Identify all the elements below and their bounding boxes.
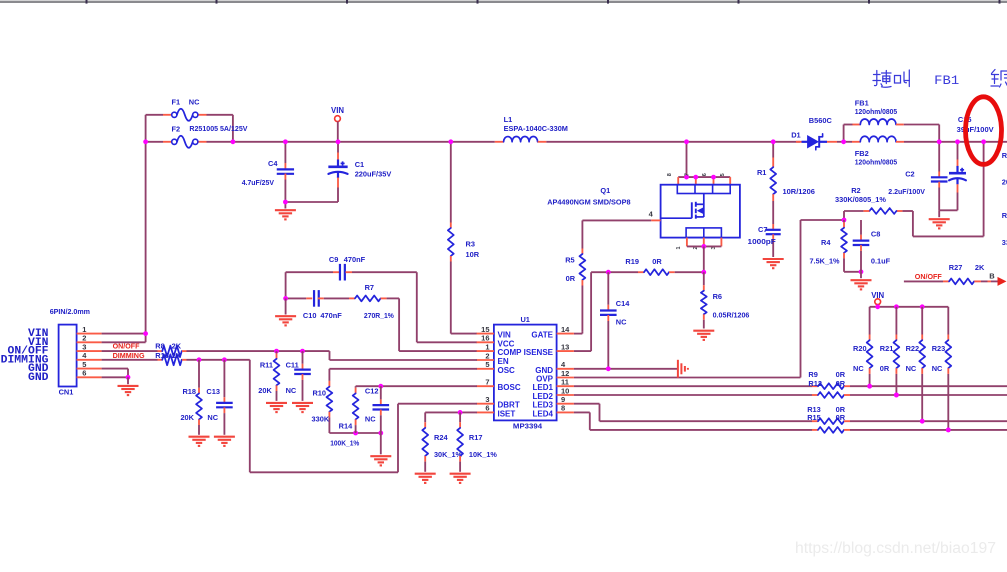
- svg-text:33: 33: [1002, 238, 1007, 247]
- svg-text:MP3394: MP3394: [513, 421, 543, 430]
- svg-text:VIN: VIN: [498, 331, 512, 340]
- svg-text:FB1: FB1: [934, 73, 959, 88]
- svg-text:R3: R3: [1002, 211, 1007, 220]
- svg-text:R2: R2: [1002, 151, 1007, 160]
- svg-text:GND: GND: [28, 372, 49, 384]
- svg-text:5: 5: [82, 360, 86, 369]
- svg-text:R17: R17: [469, 433, 483, 442]
- svg-text:6: 6: [485, 404, 489, 413]
- svg-text:2K: 2K: [172, 351, 182, 360]
- svg-text:ISENSE: ISENSE: [524, 348, 554, 357]
- svg-text:R15: R15: [807, 413, 821, 422]
- svg-text:6PIN/2.0mm: 6PIN/2.0mm: [50, 307, 91, 316]
- svg-text:2: 2: [485, 351, 489, 360]
- svg-text:R16: R16: [155, 351, 169, 360]
- svg-text:7.5K_1%: 7.5K_1%: [810, 256, 840, 265]
- svg-text:R9: R9: [808, 370, 817, 379]
- svg-text:R8: R8: [155, 342, 164, 351]
- svg-text:AP4490NGM SMD/SOP8: AP4490NGM SMD/SOP8: [547, 198, 630, 207]
- svg-text:270R_1%: 270R_1%: [364, 311, 394, 320]
- svg-text:C14: C14: [616, 299, 630, 308]
- svg-text:R14: R14: [339, 421, 353, 430]
- svg-text:0.05R/1206: 0.05R/1206: [713, 310, 750, 319]
- svg-text:10K_1%: 10K_1%: [469, 450, 497, 459]
- svg-text:120ohm/0805: 120ohm/0805: [855, 107, 897, 116]
- svg-text:5: 5: [485, 360, 489, 369]
- svg-text:R6: R6: [713, 292, 722, 301]
- svg-text:C12: C12: [365, 387, 379, 396]
- svg-text:COMP: COMP: [498, 348, 523, 357]
- svg-text:NC: NC: [853, 364, 864, 373]
- svg-text:1: 1: [485, 342, 489, 351]
- svg-text:6: 6: [82, 369, 86, 378]
- svg-text:OVP: OVP: [536, 375, 554, 384]
- svg-text:3: 3: [485, 395, 489, 404]
- svg-text:R5: R5: [565, 255, 574, 264]
- svg-text:100K_1%: 100K_1%: [330, 439, 359, 448]
- svg-text:VCC: VCC: [498, 339, 515, 348]
- svg-text:LED1: LED1: [533, 383, 554, 392]
- svg-text:12: 12: [561, 369, 569, 378]
- svg-text:R22: R22: [906, 344, 920, 353]
- svg-text:NC: NC: [616, 317, 627, 326]
- svg-text:GND: GND: [535, 366, 553, 375]
- svg-text:16: 16: [481, 334, 489, 343]
- svg-text:Q1: Q1: [600, 186, 610, 195]
- svg-text:7: 7: [684, 173, 690, 176]
- svg-text:2K: 2K: [975, 263, 985, 272]
- svg-text:DBRT: DBRT: [498, 401, 520, 410]
- svg-text:NC: NC: [932, 364, 943, 373]
- svg-text:EN: EN: [498, 357, 509, 366]
- svg-text:10: 10: [561, 386, 569, 395]
- svg-text:LED2: LED2: [533, 392, 554, 401]
- svg-text:120ohm/0805: 120ohm/0805: [855, 158, 897, 167]
- svg-text:4.7uF/25V: 4.7uF/25V: [242, 178, 274, 187]
- svg-text:R24: R24: [434, 433, 448, 442]
- svg-text:C10: C10: [303, 311, 317, 320]
- svg-text:8: 8: [667, 173, 673, 176]
- svg-text:D1: D1: [791, 131, 800, 140]
- svg-text:0.1uF: 0.1uF: [871, 256, 891, 265]
- svg-text:20K: 20K: [258, 386, 272, 395]
- svg-text:ISET: ISET: [498, 409, 516, 418]
- svg-text:7: 7: [485, 378, 489, 387]
- svg-text:220uF/35V: 220uF/35V: [355, 169, 392, 178]
- svg-text:C8: C8: [871, 229, 880, 238]
- svg-text:C2: C2: [905, 170, 914, 179]
- svg-text:R4: R4: [821, 238, 831, 247]
- svg-text:ON/OFF: ON/OFF: [915, 272, 942, 281]
- svg-text:39uF/100V: 39uF/100V: [957, 125, 994, 134]
- svg-text:L1: L1: [504, 115, 513, 124]
- svg-text:F2: F2: [172, 125, 181, 134]
- svg-text:C9: C9: [329, 255, 338, 264]
- svg-text:2.2uF/100V: 2.2uF/100V: [888, 187, 925, 196]
- svg-text:20: 20: [1002, 178, 1007, 187]
- svg-text:2K: 2K: [172, 342, 182, 351]
- svg-text:NC: NC: [207, 413, 218, 422]
- svg-text:C4: C4: [268, 159, 278, 168]
- svg-text:30K_1%: 30K_1%: [434, 450, 462, 459]
- svg-text:330K/0805_1%: 330K/0805_1%: [835, 195, 886, 204]
- svg-text:R23: R23: [932, 344, 946, 353]
- svg-text:R251005 5A/125V: R251005 5A/125V: [189, 124, 247, 133]
- svg-text:LED4: LED4: [533, 409, 554, 418]
- svg-text:R3: R3: [466, 240, 475, 249]
- svg-text:0R: 0R: [836, 379, 846, 388]
- svg-text:https://blog.csdn.net/biao197: https://blog.csdn.net/biao197: [795, 540, 996, 557]
- svg-text:C7: C7: [758, 225, 767, 234]
- svg-text:R19: R19: [625, 257, 639, 266]
- svg-text:R12: R12: [808, 379, 822, 388]
- svg-text:15: 15: [481, 325, 489, 334]
- svg-text:R21: R21: [880, 344, 894, 353]
- svg-text:0R: 0R: [566, 274, 576, 283]
- svg-text:470nF: 470nF: [344, 255, 366, 264]
- svg-text:LED3: LED3: [533, 401, 554, 410]
- svg-text:330K: 330K: [312, 414, 330, 423]
- svg-text:9: 9: [561, 395, 565, 404]
- svg-text:OSC: OSC: [498, 366, 516, 375]
- svg-text:R1: R1: [757, 168, 766, 177]
- svg-text:6: 6: [702, 173, 708, 176]
- svg-text:F1: F1: [172, 98, 181, 107]
- svg-text:ON/OFF: ON/OFF: [113, 342, 140, 351]
- svg-text:B560C: B560C: [809, 116, 833, 125]
- svg-text:11: 11: [561, 378, 569, 387]
- svg-text:8: 8: [561, 404, 565, 413]
- svg-text:1: 1: [82, 325, 86, 334]
- svg-text:3: 3: [82, 342, 86, 351]
- svg-text:1000pF: 1000pF: [748, 237, 777, 246]
- svg-text:R20: R20: [853, 344, 867, 353]
- svg-text:0R: 0R: [836, 370, 846, 379]
- svg-text:C11: C11: [286, 360, 299, 369]
- svg-text:NC: NC: [906, 364, 917, 373]
- svg-text:C13: C13: [206, 387, 220, 396]
- svg-text:10R/1206: 10R/1206: [783, 187, 815, 196]
- svg-text:0R: 0R: [880, 364, 890, 373]
- svg-text:B: B: [989, 272, 995, 281]
- svg-text:NC: NC: [286, 386, 297, 395]
- svg-text:U1: U1: [520, 315, 529, 324]
- svg-text:GATE: GATE: [531, 331, 553, 340]
- svg-text:0R: 0R: [652, 257, 662, 266]
- svg-text:2: 2: [82, 334, 86, 343]
- svg-text:14: 14: [561, 325, 570, 334]
- svg-text:C1: C1: [355, 160, 364, 169]
- svg-text:R10: R10: [312, 389, 326, 398]
- svg-text:1: 1: [676, 246, 682, 249]
- svg-text:R7: R7: [365, 283, 374, 292]
- svg-text:13: 13: [561, 342, 569, 351]
- svg-text:R11: R11: [260, 360, 273, 369]
- svg-text:5: 5: [720, 173, 726, 176]
- svg-text:R2: R2: [851, 186, 860, 195]
- svg-text:CN1: CN1: [59, 388, 74, 397]
- svg-text:10R: 10R: [466, 250, 480, 259]
- svg-text:NC: NC: [365, 414, 376, 423]
- svg-text:R27: R27: [949, 263, 963, 272]
- svg-text:0R: 0R: [836, 413, 846, 422]
- svg-text:BOSC: BOSC: [498, 383, 521, 392]
- svg-text:NC: NC: [189, 98, 200, 107]
- svg-text:470nF: 470nF: [320, 311, 342, 320]
- svg-text:R18: R18: [182, 387, 196, 396]
- svg-text:DIMMING: DIMMING: [113, 351, 145, 360]
- svg-text:ESPA-1040C-330M: ESPA-1040C-330M: [504, 124, 568, 133]
- svg-text:VIN: VIN: [331, 106, 344, 115]
- svg-text:20K: 20K: [180, 413, 194, 422]
